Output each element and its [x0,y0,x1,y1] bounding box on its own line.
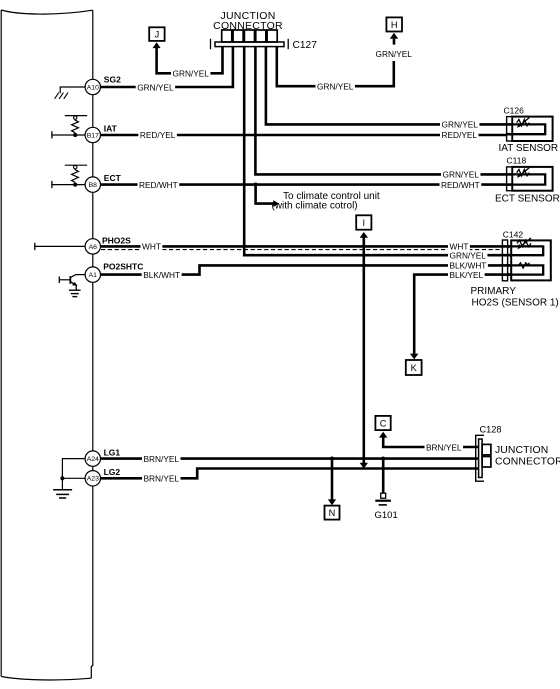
svg-text:(with climate cotrol): (with climate cotrol) [272,201,358,212]
svg-text:LG1: LG1 [104,447,121,457]
svg-text:GRN/YEL: GRN/YEL [173,68,210,78]
svg-text:GRN/YEL: GRN/YEL [442,120,479,130]
svg-text:K: K [411,363,418,373]
svg-text:BRN/YEL: BRN/YEL [144,454,180,464]
svg-text:PO2SHTC: PO2SHTC [103,261,143,271]
svg-text:H: H [391,20,398,30]
svg-text:C128: C128 [480,424,502,434]
svg-text:BLK/WHT: BLK/WHT [143,270,180,280]
svg-text:A23: A23 [87,476,99,483]
svg-text:PRIMARY: PRIMARY [471,286,517,297]
svg-text:RED/YEL: RED/YEL [140,130,176,140]
svg-text:BLK/YEL: BLK/YEL [450,270,484,280]
svg-text:N: N [329,508,336,518]
svg-text:PHO2S: PHO2S [102,236,131,246]
svg-text:CONNECTOR: CONNECTOR [495,457,560,468]
svg-text:CONNECTOR: CONNECTOR [213,20,283,32]
svg-text:IAT: IAT [104,124,118,134]
svg-text:J: J [155,29,160,39]
svg-text:ECT: ECT [104,173,122,183]
svg-text:GRN/YEL: GRN/YEL [443,170,480,180]
svg-text:G101: G101 [375,510,398,521]
svg-text:C118: C118 [507,156,527,166]
svg-text:B17: B17 [87,132,99,139]
svg-text:A24: A24 [87,456,99,463]
svg-text:C126: C126 [504,106,525,116]
svg-text:RED/WHT: RED/WHT [139,180,178,190]
svg-text:A10: A10 [87,84,99,91]
svg-text:C127: C127 [293,40,318,51]
svg-text:IAT SENSOR: IAT SENSOR [499,143,559,154]
svg-text:C142: C142 [503,229,524,239]
svg-text:A6: A6 [89,244,98,251]
svg-text:JUNCTION: JUNCTION [495,445,548,456]
svg-text:GRN/YEL: GRN/YEL [137,82,174,92]
svg-text:A1: A1 [89,272,98,279]
svg-text:GRN/YEL: GRN/YEL [450,251,487,261]
svg-text:BRN/YEL: BRN/YEL [426,442,462,452]
svg-text:GRN/YEL: GRN/YEL [376,49,413,59]
svg-text:RED/WHT: RED/WHT [441,180,480,190]
svg-text:RED/YEL: RED/YEL [442,130,478,140]
svg-text:WHT: WHT [142,242,161,252]
svg-text:HO2S (SENSOR 1): HO2S (SENSOR 1) [472,298,559,309]
svg-text:LG2: LG2 [104,467,121,477]
svg-text:BRN/YEL: BRN/YEL [144,474,180,484]
svg-text:SG2: SG2 [104,75,121,85]
svg-text:GRN/YEL: GRN/YEL [317,81,354,91]
svg-text:B8: B8 [89,182,98,189]
svg-text:I: I [363,218,366,228]
svg-text:ECT SENSOR: ECT SENSOR [495,193,560,204]
svg-text:C: C [380,418,387,428]
